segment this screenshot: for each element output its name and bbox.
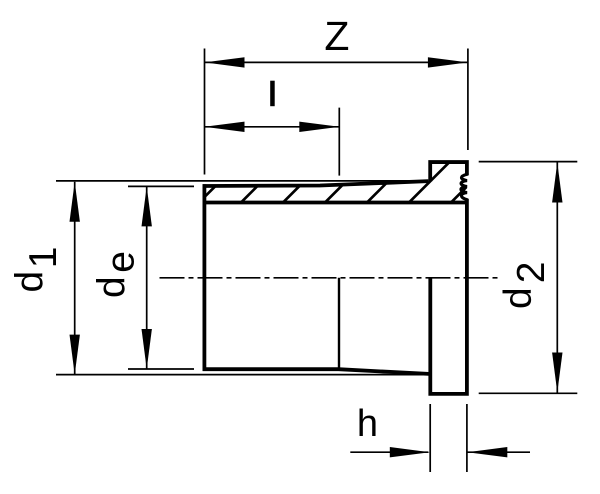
svg-text:Z: Z [324,13,349,59]
svg-text:h: h [357,403,378,445]
